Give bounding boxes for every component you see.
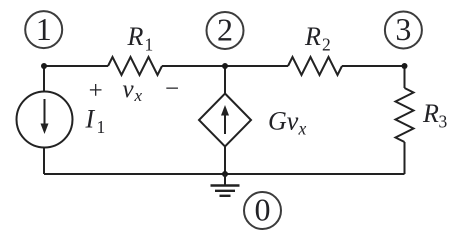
svg-text:Gv: Gv (268, 107, 299, 136)
svg-text:3: 3 (439, 112, 448, 132)
junction dot node 2 (222, 63, 228, 69)
wire node2 to R2 (225, 65, 288, 67)
svg-text:x: x (298, 119, 307, 139)
wire R1 to node2 (162, 65, 225, 67)
ground (211, 174, 240, 196)
svg-text:R: R (127, 22, 144, 51)
wire Gvx to bottom rail (224, 147, 226, 175)
resistor R2 (288, 57, 342, 75)
node 0 (244, 192, 281, 229)
node 2 (207, 12, 244, 49)
resistor R3 (396, 88, 414, 142)
svg-text:0: 0 (255, 192, 271, 228)
svg-text:3: 3 (395, 11, 411, 47)
wire node3 down to R3 (404, 66, 406, 88)
dependent current source Gvx (199, 94, 251, 147)
junction dot node 1 (41, 63, 47, 69)
svg-text:+: + (89, 78, 103, 105)
bottom rail wire (44, 173, 405, 175)
wire node2 down to Gvx source (224, 66, 226, 94)
svg-text:R: R (422, 99, 439, 128)
wire I1 to bottom rail (43, 148, 45, 175)
svg-text:1: 1 (97, 117, 106, 137)
node 1 (25, 11, 62, 48)
wire R3 to bottom rail (404, 142, 406, 174)
svg-text:2: 2 (217, 12, 233, 48)
wire node1 down to I1 (43, 66, 45, 92)
junction dot ground node (222, 171, 228, 177)
junction dot node 3 (402, 63, 408, 69)
svg-text:1: 1 (145, 35, 154, 55)
wire R2 to node3 (342, 65, 405, 67)
svg-text:−: − (165, 76, 179, 103)
node 3 (385, 11, 422, 48)
svg-text:v: v (123, 76, 135, 103)
svg-text:2: 2 (322, 35, 331, 55)
svg-text:x: x (134, 86, 143, 105)
svg-text:I: I (85, 105, 96, 134)
svg-text:R: R (304, 22, 321, 51)
svg-text:1: 1 (36, 11, 52, 47)
resistor R1 (108, 57, 162, 75)
current source I1 (17, 92, 73, 148)
wire node1 to R1 (44, 65, 108, 67)
